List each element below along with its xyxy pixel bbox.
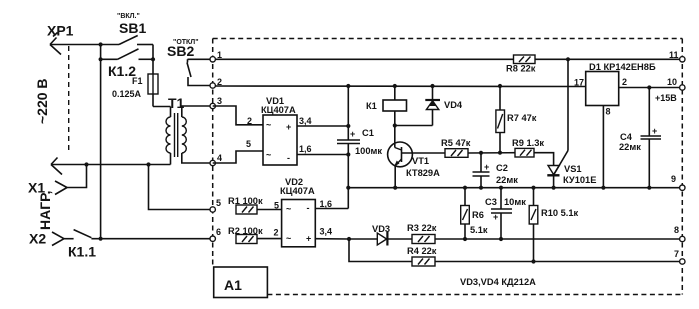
svg-text:~: ~ [266, 150, 271, 160]
svg-text:6: 6 [216, 227, 221, 237]
svg-text:R7 47к: R7 47к [507, 113, 537, 123]
svg-text:КЦ407А: КЦ407А [280, 186, 315, 196]
svg-text:R6: R6 [472, 210, 484, 220]
svg-text:100мк: 100мк [355, 146, 382, 156]
svg-text:8: 8 [674, 225, 679, 235]
svg-text:8: 8 [606, 107, 611, 117]
svg-text:R10 5.1к: R10 5.1к [541, 208, 579, 218]
svg-text:ХР1: ХР1 [47, 23, 74, 39]
svg-text:D1 КР142ЕН8Б: D1 КР142ЕН8Б [589, 62, 656, 72]
svg-text:1,6: 1,6 [299, 144, 312, 154]
svg-text:Х2: Х2 [29, 231, 46, 247]
svg-text:VT1: VT1 [412, 156, 429, 166]
svg-text:9: 9 [671, 174, 676, 184]
svg-text:10мк: 10мк [504, 197, 526, 207]
svg-text:-: - [307, 203, 310, 213]
svg-text:+: + [493, 212, 498, 222]
svg-text:VD3,VD4 КД212А: VD3,VD4 КД212А [460, 277, 536, 287]
svg-text:+: + [306, 234, 311, 244]
svg-text:2: 2 [217, 77, 222, 87]
svg-text:22мк: 22мк [496, 175, 518, 185]
svg-text:SB2: SB2 [167, 43, 194, 59]
svg-text:5: 5 [274, 201, 279, 211]
svg-text:КУ101Е: КУ101Е [563, 175, 596, 185]
svg-text:4: 4 [217, 153, 222, 163]
svg-text:+15В: +15В [655, 93, 677, 103]
svg-text:Х1: Х1 [28, 180, 45, 196]
svg-text:22мк: 22мк [619, 142, 641, 152]
svg-text:"ВКЛ.": "ВКЛ." [117, 13, 140, 20]
svg-text:+: + [484, 162, 489, 172]
svg-text:А1: А1 [224, 277, 242, 293]
svg-text:10: 10 [667, 77, 677, 87]
svg-text:-: - [287, 153, 290, 163]
svg-text:+: + [652, 126, 657, 136]
svg-text:НАГР,: НАГР, [37, 191, 53, 230]
svg-text:1: 1 [217, 50, 222, 60]
svg-text:КТ829А: КТ829А [406, 168, 440, 178]
svg-text:3,4: 3,4 [299, 116, 312, 126]
svg-text:С3: С3 [485, 197, 497, 207]
svg-text:КЦ407А: КЦ407А [261, 105, 296, 115]
svg-text:3,4: 3,4 [320, 227, 333, 237]
svg-text:7: 7 [674, 249, 679, 259]
svg-text:2: 2 [622, 77, 627, 87]
svg-text:VD4: VD4 [444, 100, 463, 110]
svg-text:5: 5 [216, 198, 221, 208]
svg-text:5.1к: 5.1к [470, 225, 488, 235]
svg-text:1,6: 1,6 [320, 199, 333, 209]
svg-text:~: ~ [266, 120, 271, 130]
svg-text:~: ~ [286, 204, 291, 214]
svg-text:SB1: SB1 [119, 20, 146, 36]
svg-text:17: 17 [574, 78, 584, 88]
svg-text:~: ~ [286, 234, 291, 244]
svg-text:VD3: VD3 [372, 224, 390, 234]
svg-text:К1.1: К1.1 [68, 244, 96, 260]
svg-text:3: 3 [217, 96, 222, 106]
svg-text:R4 22к: R4 22к [407, 246, 437, 256]
svg-text:R9 1.3к: R9 1.3к [512, 138, 544, 148]
svg-text:С2: С2 [496, 163, 508, 173]
svg-text:11: 11 [669, 50, 679, 60]
svg-text:С1: С1 [362, 128, 374, 138]
svg-text:2: 2 [247, 116, 252, 126]
svg-text:2: 2 [274, 228, 279, 238]
svg-text:R5 47к: R5 47к [441, 138, 471, 148]
svg-text:R8 22к: R8 22к [506, 64, 536, 74]
svg-text:К1: К1 [366, 101, 377, 111]
svg-text:С4: С4 [620, 132, 633, 142]
svg-text:0.125А: 0.125А [112, 89, 142, 99]
svg-text:+: + [286, 122, 291, 132]
svg-text:VS1: VS1 [564, 164, 582, 174]
svg-text:R3 22к: R3 22к [407, 223, 437, 233]
svg-text:+: + [350, 129, 355, 139]
svg-text:5: 5 [246, 139, 251, 149]
svg-text:F1: F1 [132, 76, 143, 86]
svg-text:~220 В: ~220 В [34, 78, 50, 124]
